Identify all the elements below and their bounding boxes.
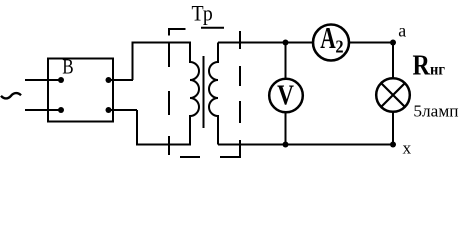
junction node top voltmeter [283,40,289,46]
svg-text:В: В [62,56,73,79]
dashed screen box right dash 3 [239,101,241,123]
AC source symbol ~ [1,93,21,98]
dashed screen box left dash 3 [168,91,170,115]
svg-text:a: a [398,21,406,41]
transformer core [203,56,205,128]
wire switch to primary lower [109,109,138,111]
wire secondary top [218,42,393,44]
dashed screen box right dash 2 [239,66,241,86]
dashed screen box left dash 4 [168,136,170,155]
terminal dot upper-right [106,77,112,83]
transformer primary winding [133,43,200,145]
svg-text:Тр: Тр [192,1,213,26]
lamp Rнг circle [376,78,410,112]
svg-text:V: V [277,79,294,111]
wire voltmeter branch [285,43,287,145]
transformer secondary winding [209,43,218,145]
dashed screen box top dash 2 (Тр underline) [201,27,224,29]
dashed screen box right dash 1 [239,31,241,49]
dashed screen box left dash 2 [168,44,170,68]
svg-text:нг: нг [430,61,445,79]
svg-text:x: x [403,139,412,158]
dashed screen box bottom dash 2 [180,156,200,158]
label Rнг [413,48,445,81]
wire lower supply to switch [25,109,61,111]
svg-text:R: R [413,48,431,81]
node a [390,40,396,46]
wire upper supply to switch [25,79,61,81]
wire lamp branch [392,43,394,145]
terminal dot lower-right [106,107,112,113]
svg-text:5ламп: 5ламп [413,102,458,121]
svg-text:2: 2 [335,37,343,57]
junction node bottom voltmeter [283,142,289,148]
voltmeter V [269,79,303,113]
terminal dot lower-left [58,107,64,113]
lamp cross [381,83,405,107]
svg-text:A: A [320,20,335,55]
dashed screen box right dash 4 (bottom corner) [220,140,240,157]
ammeter A2 [313,20,349,60]
node x [390,142,396,148]
terminal dot upper-left [58,77,64,83]
dashed screen box top dash 1 [169,29,186,36]
wire secondary bottom [218,144,393,146]
switch B box [48,59,113,122]
wire switch to primary upper [109,79,134,81]
